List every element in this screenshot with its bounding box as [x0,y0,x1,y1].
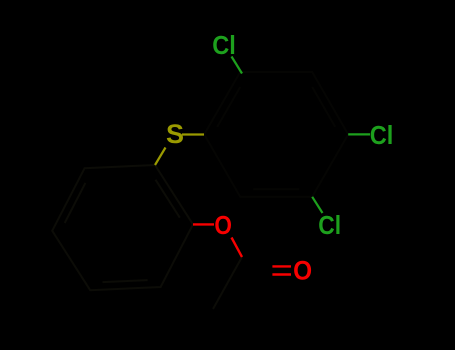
svg-text:Cl: Cl [370,120,394,150]
svg-text:Cl: Cl [318,210,341,240]
svg-text:O: O [214,210,232,240]
svg-text:Cl: Cl [212,30,236,60]
svg-text:S: S [166,119,184,149]
svg-text:O: O [293,255,312,285]
